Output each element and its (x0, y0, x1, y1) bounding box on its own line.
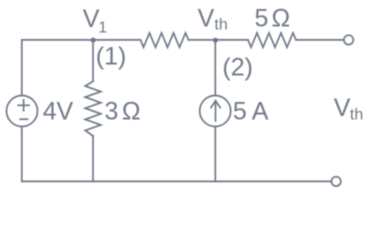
svg-text:4: 4 (43, 97, 57, 125)
svg-text:V: V (198, 5, 215, 33)
wire top-left horizontal (left terminal of V1 node to source) (22, 39, 141, 41)
resistor R1 (between node V1 and node Vth, horizontal zigzag) (141, 33, 189, 47)
current source I=5A (circle) (200, 96, 231, 127)
arrow inside current source (pointing up) (215, 101, 217, 121)
node V1 (junction dot) (91, 38, 96, 43)
node Vth (junction dot) (213, 38, 218, 43)
svg-text:V: V (57, 97, 74, 125)
wire left vertical upper (21, 40, 23, 96)
wire current source to bottom wire (214, 127, 216, 182)
wire 5ohm to top-right terminal (296, 39, 344, 41)
svg-text:3: 3 (105, 98, 119, 126)
svg-text:th: th (214, 17, 227, 34)
terminal top-right (open circle) (344, 35, 353, 44)
wire left vertical lower (21, 127, 23, 182)
svg-text:(1): (1) (96, 43, 127, 71)
wire node Vth down to current source (214, 40, 216, 96)
svg-text:5: 5 (233, 98, 247, 126)
wire node V1 down to 3ohm resistor (92, 40, 94, 81)
svg-text:Ω: Ω (122, 98, 141, 126)
svg-text:1: 1 (98, 20, 107, 37)
resistor 3ohm (vertical zigzag) (85, 81, 101, 136)
wire 3ohm resistor to bottom wire (92, 136, 94, 182)
minus sign inside source (20, 118, 27, 120)
resistor 5ohm (horizontal zigzag top right) (248, 33, 296, 47)
wire node V1 to node Vth segment (189, 39, 249, 41)
svg-text:V: V (334, 94, 351, 122)
voltage source V=4V (circle) (7, 96, 38, 127)
svg-text:5: 5 (255, 5, 269, 33)
svg-text:Ω: Ω (272, 5, 291, 33)
terminal bottom-right (open circle) (331, 177, 340, 186)
plus sign inside source (18, 104, 29, 106)
svg-text:V: V (83, 5, 100, 33)
svg-text:th: th (350, 107, 363, 124)
svg-text:(2): (2) (222, 54, 253, 82)
wire bottom horizontal (22, 180, 332, 182)
svg-text:A: A (252, 98, 269, 126)
